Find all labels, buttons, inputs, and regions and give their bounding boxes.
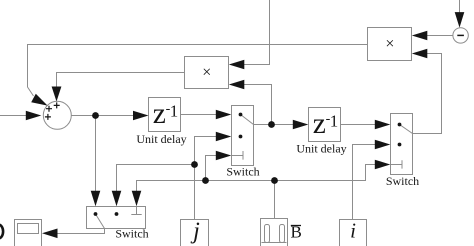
- wire product TR output feedback to sum diagonal: [28, 45, 368, 97]
- switch SW2: [386, 114, 419, 189]
- svg-text:z: z: [153, 98, 166, 130]
- switch SW1: [226, 106, 259, 179]
- svg-text:Switch: Switch: [226, 165, 259, 179]
- arrow into product TR lower: [412, 49, 428, 59]
- minus gain circle: [453, 28, 468, 43]
- sum block S1: [43, 101, 71, 129]
- constant block i: [340, 219, 367, 246]
- switch SW3 rotated: [87, 207, 149, 241]
- svg-text:Unit delay: Unit delay: [296, 142, 346, 156]
- wire B bar control line: [137, 165, 379, 195]
- display block: [15, 220, 42, 246]
- wire unit delay 2 to switch2 port1: [341, 124, 379, 126]
- unit delay U1: [136, 98, 186, 147]
- wire top edge into minus circle: [459, 0, 461, 15]
- pulse generator block B: [261, 219, 288, 246]
- product P1 mid: [185, 57, 229, 89]
- arrow into switch3 port3: [132, 191, 142, 207]
- wire j branch left to switch3 port2: [117, 165, 195, 195]
- arrow into unit delay 2: [293, 120, 309, 130]
- wire minus circle to product TR upper input: [427, 35, 453, 37]
- arrow into sum left: [26, 111, 42, 121]
- wire switch1 output to unit delay 2: [254, 124, 296, 126]
- svg-text:Switch: Switch: [386, 174, 419, 188]
- wire B bar up from block: [274, 181, 276, 220]
- arrow into product mid lower: [229, 80, 245, 90]
- constant block j: [181, 219, 209, 246]
- svg-text:Unit delay: Unit delay: [136, 132, 186, 146]
- arrow into switch2 port1: [375, 120, 391, 130]
- arrow into switch3 port2: [112, 191, 122, 207]
- cropped glyph left edge: [0, 225, 3, 239]
- wire from top edge to product mid upper input: [244, 0, 270, 65]
- wire switch1 junction up to product mid lower input: [244, 85, 272, 125]
- arrow into switch1 port2: [216, 132, 232, 142]
- junction dots: [92, 112, 278, 184]
- arrow into minus circle top: [455, 12, 465, 28]
- arrow into product TR upper: [412, 31, 428, 41]
- svg-text:1: 1: [330, 112, 339, 131]
- svg-text:z: z: [313, 108, 326, 140]
- label B bar: [291, 223, 302, 242]
- wire sum output to unit delay 1: [71, 115, 136, 117]
- wire switch2 output up to product TR lower input: [413, 54, 442, 134]
- wire i up to switch2 port2: [353, 145, 379, 220]
- arrow into switch1 port1: [216, 110, 232, 120]
- product P2 top right: [368, 28, 412, 61]
- unit delay U2: [296, 108, 346, 156]
- arrow into switch2 port2: [375, 140, 391, 150]
- svg-text:i: i: [350, 219, 356, 243]
- arrow into switch2 port3: [375, 160, 391, 170]
- wire left input to sum: [0, 115, 30, 117]
- wire control branch up to switch1 port3: [206, 156, 220, 181]
- arrow into switch3 port1: [91, 191, 101, 207]
- svg-text:×: ×: [202, 64, 211, 81]
- arrow into unit delay 1: [133, 111, 149, 121]
- wire switch3 output to display: [57, 229, 105, 234]
- sum plus signs: [45, 102, 60, 120]
- wire sum junction down to switch3 port1: [95, 116, 97, 195]
- wire product mid output feedback to sum top: [57, 73, 185, 90]
- arrow into switch1 port3: [216, 151, 232, 161]
- svg-text:Switch: Switch: [115, 227, 148, 241]
- arrow into sum top: [52, 87, 62, 102]
- wire unit delay 1 to switch1 port1: [181, 114, 220, 116]
- arrow into display: [42, 229, 58, 239]
- arrow into product mid upper: [229, 60, 245, 70]
- wire j up to switch1 port2: [195, 137, 220, 220]
- arrow into sum diagonal: [31, 94, 47, 106]
- svg-text:1: 1: [170, 102, 179, 121]
- svg-text:×: ×: [385, 36, 394, 53]
